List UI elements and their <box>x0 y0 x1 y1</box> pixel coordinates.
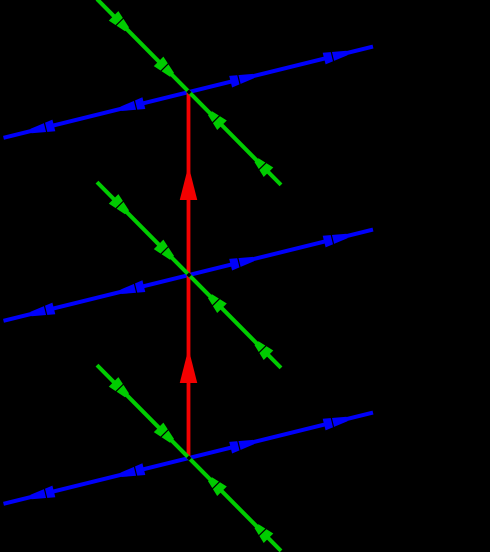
wire blue line 1 <box>4 47 374 138</box>
node gap <box>186 272 191 277</box>
node gap <box>186 89 191 94</box>
wire green line 3 <box>97 365 281 551</box>
wire red segment 1 <box>180 92 198 275</box>
wire blue line 2 <box>4 230 374 321</box>
wire red segment 2 <box>180 275 198 458</box>
wire green line 1 <box>97 0 281 185</box>
wire green line 2 <box>97 182 281 368</box>
node gap <box>186 455 191 460</box>
wire blue line 3 <box>4 413 374 504</box>
